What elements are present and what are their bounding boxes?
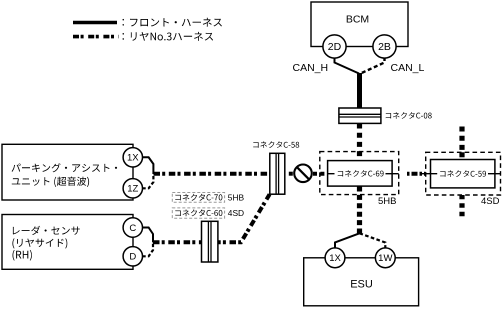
wire no-connection symbol to C-69 xyxy=(313,172,328,176)
legend: rear-No.3-harness label xyxy=(123,32,214,41)
legend: front-harness line sample xyxy=(73,21,117,25)
value 4SD (C-59) xyxy=(481,196,500,207)
svg-text:5HB: 5HB xyxy=(228,193,245,203)
svg-text:CAN_L: CAN_L xyxy=(391,62,425,74)
label コネクタC-70 xyxy=(175,194,222,201)
wire CAN_L from pin 2B to junction (dashed) xyxy=(360,57,385,74)
svg-text:C: C xyxy=(129,223,136,234)
pin 1W (ESU) xyxy=(375,248,395,268)
svg-text:4SD: 4SD xyxy=(481,196,500,207)
wire tick left of C-59 xyxy=(420,173,500,175)
wire from pin 1Z to junction (dashed) xyxy=(142,174,153,188)
wire radar sensor through C-60 up to C-58 (rear No.3 harness) xyxy=(153,194,270,242)
label box コネクタC-60 xyxy=(172,208,224,218)
label コネクタC-08 xyxy=(386,112,432,119)
pin 1X (ESU) xyxy=(325,248,345,268)
label box コネクタC-70 xyxy=(172,193,224,203)
svg-text:5HB: 5HB xyxy=(378,196,396,207)
net label CAN_H xyxy=(293,62,329,74)
wire CAN trunk rear No.3 harness (C-08 to C-69) xyxy=(357,124,362,161)
connector C-58 xyxy=(270,153,285,194)
label parking assist unit line1 xyxy=(12,163,118,172)
connector C-08 xyxy=(339,108,381,123)
wire from pin 1X to junction xyxy=(142,157,153,174)
wire CAN trunk C-69 to ESU junction (rear No.3 harness) xyxy=(357,187,362,234)
label radar sensor line1 xyxy=(13,226,80,235)
wire junction to pin 1W (ESU, dashed) xyxy=(360,233,386,248)
wire CAN_H from pin 2D to junction xyxy=(335,57,360,74)
label コネクタC-60 xyxy=(175,209,222,216)
label コネクタC-58 xyxy=(253,141,299,148)
label コネクタC-59 xyxy=(440,170,486,177)
connector C-59 outer dashed box xyxy=(426,152,501,195)
wire into C-59 from top (rear No.3 harness) xyxy=(459,127,464,160)
svg-text:2D: 2D xyxy=(328,41,342,53)
svg-text:1Z: 1Z xyxy=(127,184,138,195)
wire C-69 to C-59 xyxy=(328,173,426,175)
pin C xyxy=(123,218,142,237)
wire from pin C to junction xyxy=(142,228,153,243)
svg-text:1X: 1X xyxy=(127,153,139,164)
pin 1Z xyxy=(123,179,142,198)
svg-text:ESU: ESU xyxy=(350,279,373,291)
svg-text:4SD: 4SD xyxy=(228,208,244,218)
BCM box xyxy=(311,2,408,47)
parking assist unit box xyxy=(2,144,133,200)
svg-text:CAN_H: CAN_H xyxy=(293,62,329,74)
wire out of C-59 bottom (rear No.3 harness) xyxy=(459,195,464,218)
connector C-69 outer dashed box xyxy=(320,152,399,195)
svg-text:1W: 1W xyxy=(378,253,392,264)
wire C-59 vertical over border xyxy=(459,152,464,160)
net label CAN_L xyxy=(391,62,425,74)
connector C-69 inner box xyxy=(328,161,393,187)
value 5HB (C-70) xyxy=(228,193,245,203)
no-connection symbol (circle-slash) xyxy=(294,165,312,183)
label コネクタC-69 xyxy=(338,170,384,177)
svg-text:D: D xyxy=(129,252,136,263)
wire junction to pin 1X (ESU) xyxy=(335,233,360,248)
svg-text:BCM: BCM xyxy=(346,14,369,26)
pin 1X xyxy=(123,148,142,167)
radar sensor box xyxy=(2,215,133,270)
label parking assist unit line2 xyxy=(12,177,89,187)
pin D xyxy=(123,247,142,266)
legend: front-harness label xyxy=(123,18,222,27)
wire C-58 to no-connection symbol xyxy=(289,172,293,176)
value 5HB (C-69) xyxy=(378,196,396,207)
wire parking unit to C-58 (rear No.3 harness) xyxy=(154,172,270,176)
svg-text:2B: 2B xyxy=(378,41,391,53)
legend: rear-No.3-harness line sample xyxy=(73,35,119,39)
pin 2D xyxy=(323,35,346,58)
value 4SD (C-60) xyxy=(228,208,244,218)
wire CAN trunk front harness (junction to C-08) xyxy=(357,73,362,109)
pin 2B xyxy=(373,35,396,58)
wire from pin D to junction (dashed) xyxy=(142,242,153,256)
label radar sensor line2 xyxy=(12,238,67,248)
label radar sensor line3 xyxy=(13,250,32,261)
ESU box xyxy=(304,258,419,306)
svg-text:1X: 1X xyxy=(329,253,341,264)
connector C-60/C-70 (inline) xyxy=(202,221,218,262)
connector C-59 inner box xyxy=(431,160,495,188)
